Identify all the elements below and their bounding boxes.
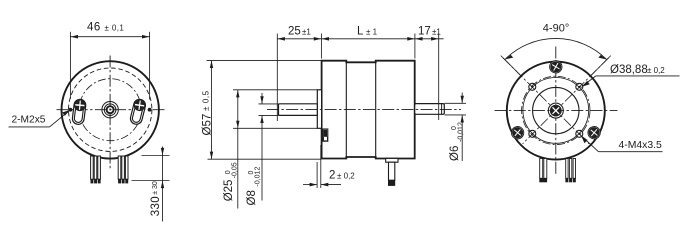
front pilot boss Ø25 x2 — [317, 90, 321, 129]
left mounting slot (obround, tilted) — [72, 99, 87, 125]
rear view lead wires (right leg, 3 wires) — [566, 159, 576, 179]
svg-text:± 1: ± 1 — [366, 27, 378, 36]
dimension Ø8 0/-0,012 — [259, 93, 279, 201]
side view horizontal centerline — [267, 109, 461, 111]
rear shaft end (knurled) — [548, 103, 563, 118]
svg-text:± 0,1: ± 0,1 — [105, 24, 125, 33]
front view vertical centerline — [109, 56, 111, 169]
svg-text:Ø25: Ø25 — [223, 180, 235, 202]
svg-text:Ø8: Ø8 — [246, 190, 258, 205]
svg-text:-0,012: -0,012 — [458, 122, 465, 142]
front shaft Ø8 — [279, 104, 318, 116]
front view left leg crimp feet — [91, 179, 101, 183]
body section line left — [345, 62, 347, 157]
right slot screw head M2 — [134, 99, 146, 111]
side view terminal stem — [389, 162, 395, 180]
measuring point dot left (46 dim) — [69, 108, 73, 112]
left slot screw head M2 — [74, 99, 85, 110]
angle dimension extension line (NE) — [591, 56, 611, 76]
dimension Ø25 0/-0,05 — [233, 90, 317, 209]
side view terminal foot (black) — [388, 180, 395, 186]
svg-text:4-M4x3.5: 4-M4x3.5 — [619, 140, 663, 151]
svg-text:330: 330 — [150, 196, 162, 216]
svg-text:L: L — [357, 25, 364, 37]
svg-text:-0,012: -0,012 — [255, 167, 262, 187]
svg-text:46: 46 — [87, 22, 101, 34]
svg-text:±1: ±1 — [432, 27, 441, 36]
front view shaft circle — [104, 104, 116, 116]
front view lead wires (left leg, 3 wires) — [91, 156, 101, 179]
rear view 45deg diagonal centerline (NW-SE) — [503, 58, 589, 144]
dimension 2 ±0,2 (boss thickness) — [303, 145, 341, 188]
dimension Ø6 0/-0,012 (rear shaft) — [445, 93, 467, 162]
svg-text:±1: ±1 — [302, 27, 311, 36]
svg-text:± 0,2: ± 0,2 — [647, 66, 665, 75]
front view lead wires (right leg, 3 wires) — [118, 156, 128, 179]
rear view bearing circle — [533, 87, 579, 133]
rear view lead wires (left leg, 2 wires) — [540, 159, 547, 179]
rear shaft Ø6 — [415, 104, 445, 115]
rear shaft end line — [441, 104, 443, 114]
front view shaft bore circle (thick) — [107, 106, 114, 113]
rear end-bell step circle — [523, 78, 589, 144]
dimension 330 ±30 (lead length) — [132, 147, 170, 222]
right mounting slot (obround, tilted) — [129, 98, 146, 125]
front view hidden dashed circle (face step) — [69, 68, 152, 151]
M4 tapped holes (4x) — [529, 83, 583, 137]
front view center boss circle — [102, 102, 118, 118]
svg-text:± 30: ± 30 — [152, 181, 159, 195]
rear view bolt circle (dash-dot) — [522, 76, 590, 144]
front view right leg crimp feet — [118, 179, 128, 183]
svg-text:17: 17 — [418, 25, 431, 37]
svg-text:± 0,5: ± 0,5 — [202, 90, 211, 111]
top dimensions 25±1 / L±1 / 17±1 — [277, 34, 443, 122]
rear view vertical centerline — [555, 47, 557, 176]
svg-text:2-M2x5: 2-M2x5 — [12, 114, 46, 125]
front view bolt circle (dash-dot) — [79, 79, 141, 141]
svg-text:Ø38,88: Ø38,88 — [610, 64, 648, 76]
rear view outer circle — [507, 62, 605, 160]
svg-text:4-90°: 4-90° — [543, 23, 569, 35]
svg-text:2: 2 — [329, 170, 335, 182]
rear view 45deg diagonal centerline (NE-SW) — [523, 58, 609, 144]
measuring point dot right (46 dim) — [148, 108, 152, 112]
side view terminal cap — [386, 158, 398, 162]
rear housing screws (3x) — [509, 58, 603, 141]
svg-text:Ø57: Ø57 — [202, 114, 214, 136]
dimension Ø57 ±0,5 — [207, 60, 322, 159]
svg-text:-0,05: -0,05 — [232, 162, 239, 178]
rear view left leg foot — [539, 178, 547, 182]
rear view horizontal centerline — [495, 110, 618, 112]
angular dimension 4-90° arc — [505, 38, 607, 59]
body section line right — [375, 62, 377, 157]
svg-text:25: 25 — [288, 25, 301, 37]
motor body outline with recessed middle section — [322, 61, 415, 159]
front view horizontal centerline — [57, 109, 165, 111]
index tab on front face — [323, 129, 328, 141]
rear view right leg feet — [565, 178, 575, 182]
angle dimension extension line (NW) — [501, 56, 521, 76]
dimension 46 ±0,1 — [70, 32, 149, 100]
front view outer circle (motor housing Ø57) — [61, 61, 158, 158]
rear shaft end ring — [548, 103, 563, 118]
svg-text:± 0,2: ± 0,2 — [337, 172, 355, 181]
svg-text:Ø6: Ø6 — [449, 146, 461, 161]
